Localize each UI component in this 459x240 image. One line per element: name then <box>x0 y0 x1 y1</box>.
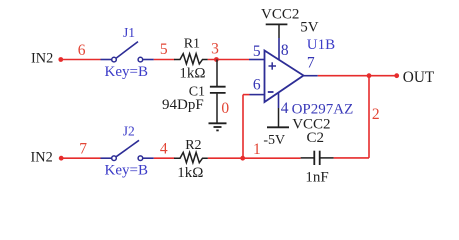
capacitor C1 <box>210 60 226 124</box>
svg-text:1nF: 1nF <box>305 170 328 186</box>
wire net 1 horizontal (R2 to C2 left lead) <box>208 157 301 159</box>
wire net 3 (R1 to op-amp noninverting input) <box>208 59 249 61</box>
svg-text:J1: J1 <box>123 25 135 40</box>
svg-text:7: 7 <box>79 141 87 158</box>
switch J2 <box>101 140 154 160</box>
svg-text:VCC2: VCC2 <box>261 7 299 23</box>
op-amp U1B <box>265 51 304 103</box>
capacitor C2 <box>301 151 334 165</box>
svg-text:6: 6 <box>78 42 86 59</box>
wire net 2 horizontal (op-amp output to OUT) <box>318 75 397 77</box>
resistor R1 <box>174 54 208 64</box>
wire net 4 (J2 to R2) <box>154 157 175 159</box>
svg-text:3: 3 <box>211 40 219 57</box>
resistor R2 <box>174 152 208 162</box>
svg-text:R2: R2 <box>185 138 201 153</box>
svg-text:94DpF: 94DpF <box>162 97 204 113</box>
input terminal IN2 (top row) <box>31 50 63 66</box>
power symbol VCC2 5V (top) <box>266 24 288 38</box>
svg-text:U1B: U1B <box>307 37 335 53</box>
svg-text:4: 4 <box>160 140 168 157</box>
ground <box>209 123 227 130</box>
svg-text:4: 4 <box>281 100 289 117</box>
power symbol VCC2 -5V (bottom) <box>267 108 289 127</box>
svg-text:7: 7 <box>307 55 315 72</box>
svg-text:0: 0 <box>221 100 229 117</box>
op-amp pin 8 stub (V+) <box>278 38 280 60</box>
svg-text:8: 8 <box>281 42 289 59</box>
svg-text:2: 2 <box>372 106 380 123</box>
op-amp pin 7 stub (output) <box>304 75 318 77</box>
svg-text:C2: C2 <box>307 130 325 146</box>
svg-text:-5V: -5V <box>263 133 285 148</box>
svg-text:1kΩ: 1kΩ <box>179 65 205 81</box>
svg-text:Key=B: Key=B <box>105 64 148 80</box>
svg-text:1: 1 <box>253 141 261 158</box>
svg-text:5V: 5V <box>300 20 319 36</box>
svg-text:6: 6 <box>253 76 261 93</box>
wire net 2 horizontal (to C2 right lead) <box>334 157 369 159</box>
junction at output node <box>367 73 372 78</box>
svg-text:IN2: IN2 <box>31 149 53 165</box>
svg-text:5: 5 <box>160 41 168 58</box>
svg-text:OUT: OUT <box>403 69 435 86</box>
output terminal OUT <box>394 69 435 86</box>
wire net 6 (IN2 top to J1) <box>61 59 101 61</box>
input terminal IN2 (bottom row) <box>31 149 64 165</box>
junction node 1 <box>240 156 245 161</box>
wire net 1 riser (node 1 up to op-amp inverting input) <box>242 95 244 159</box>
op-amp pin 4 stub (V-) <box>278 93 280 109</box>
svg-text:5: 5 <box>253 43 261 60</box>
svg-text:J2: J2 <box>123 124 135 139</box>
junction node 3 <box>214 57 219 62</box>
wire net 2 vertical (feedback drop) <box>368 76 370 158</box>
svg-text:R1: R1 <box>184 37 200 52</box>
svg-text:1kΩ: 1kΩ <box>177 165 203 181</box>
svg-text:OP297AZ: OP297AZ <box>292 101 354 117</box>
op-amp pin 5 stub (IN+) <box>249 59 265 61</box>
op-amp pin 6 stub (IN-) <box>250 94 265 96</box>
wire net 5 (J1 to R1) <box>154 59 175 61</box>
wire net 1 elbow (to pin 6 stub) <box>243 94 250 96</box>
wire net 7 (IN2 bottom to J2) <box>61 157 100 159</box>
svg-text:Key=B: Key=B <box>105 163 148 179</box>
switch J1 <box>101 42 154 62</box>
svg-text:IN2: IN2 <box>31 50 53 66</box>
